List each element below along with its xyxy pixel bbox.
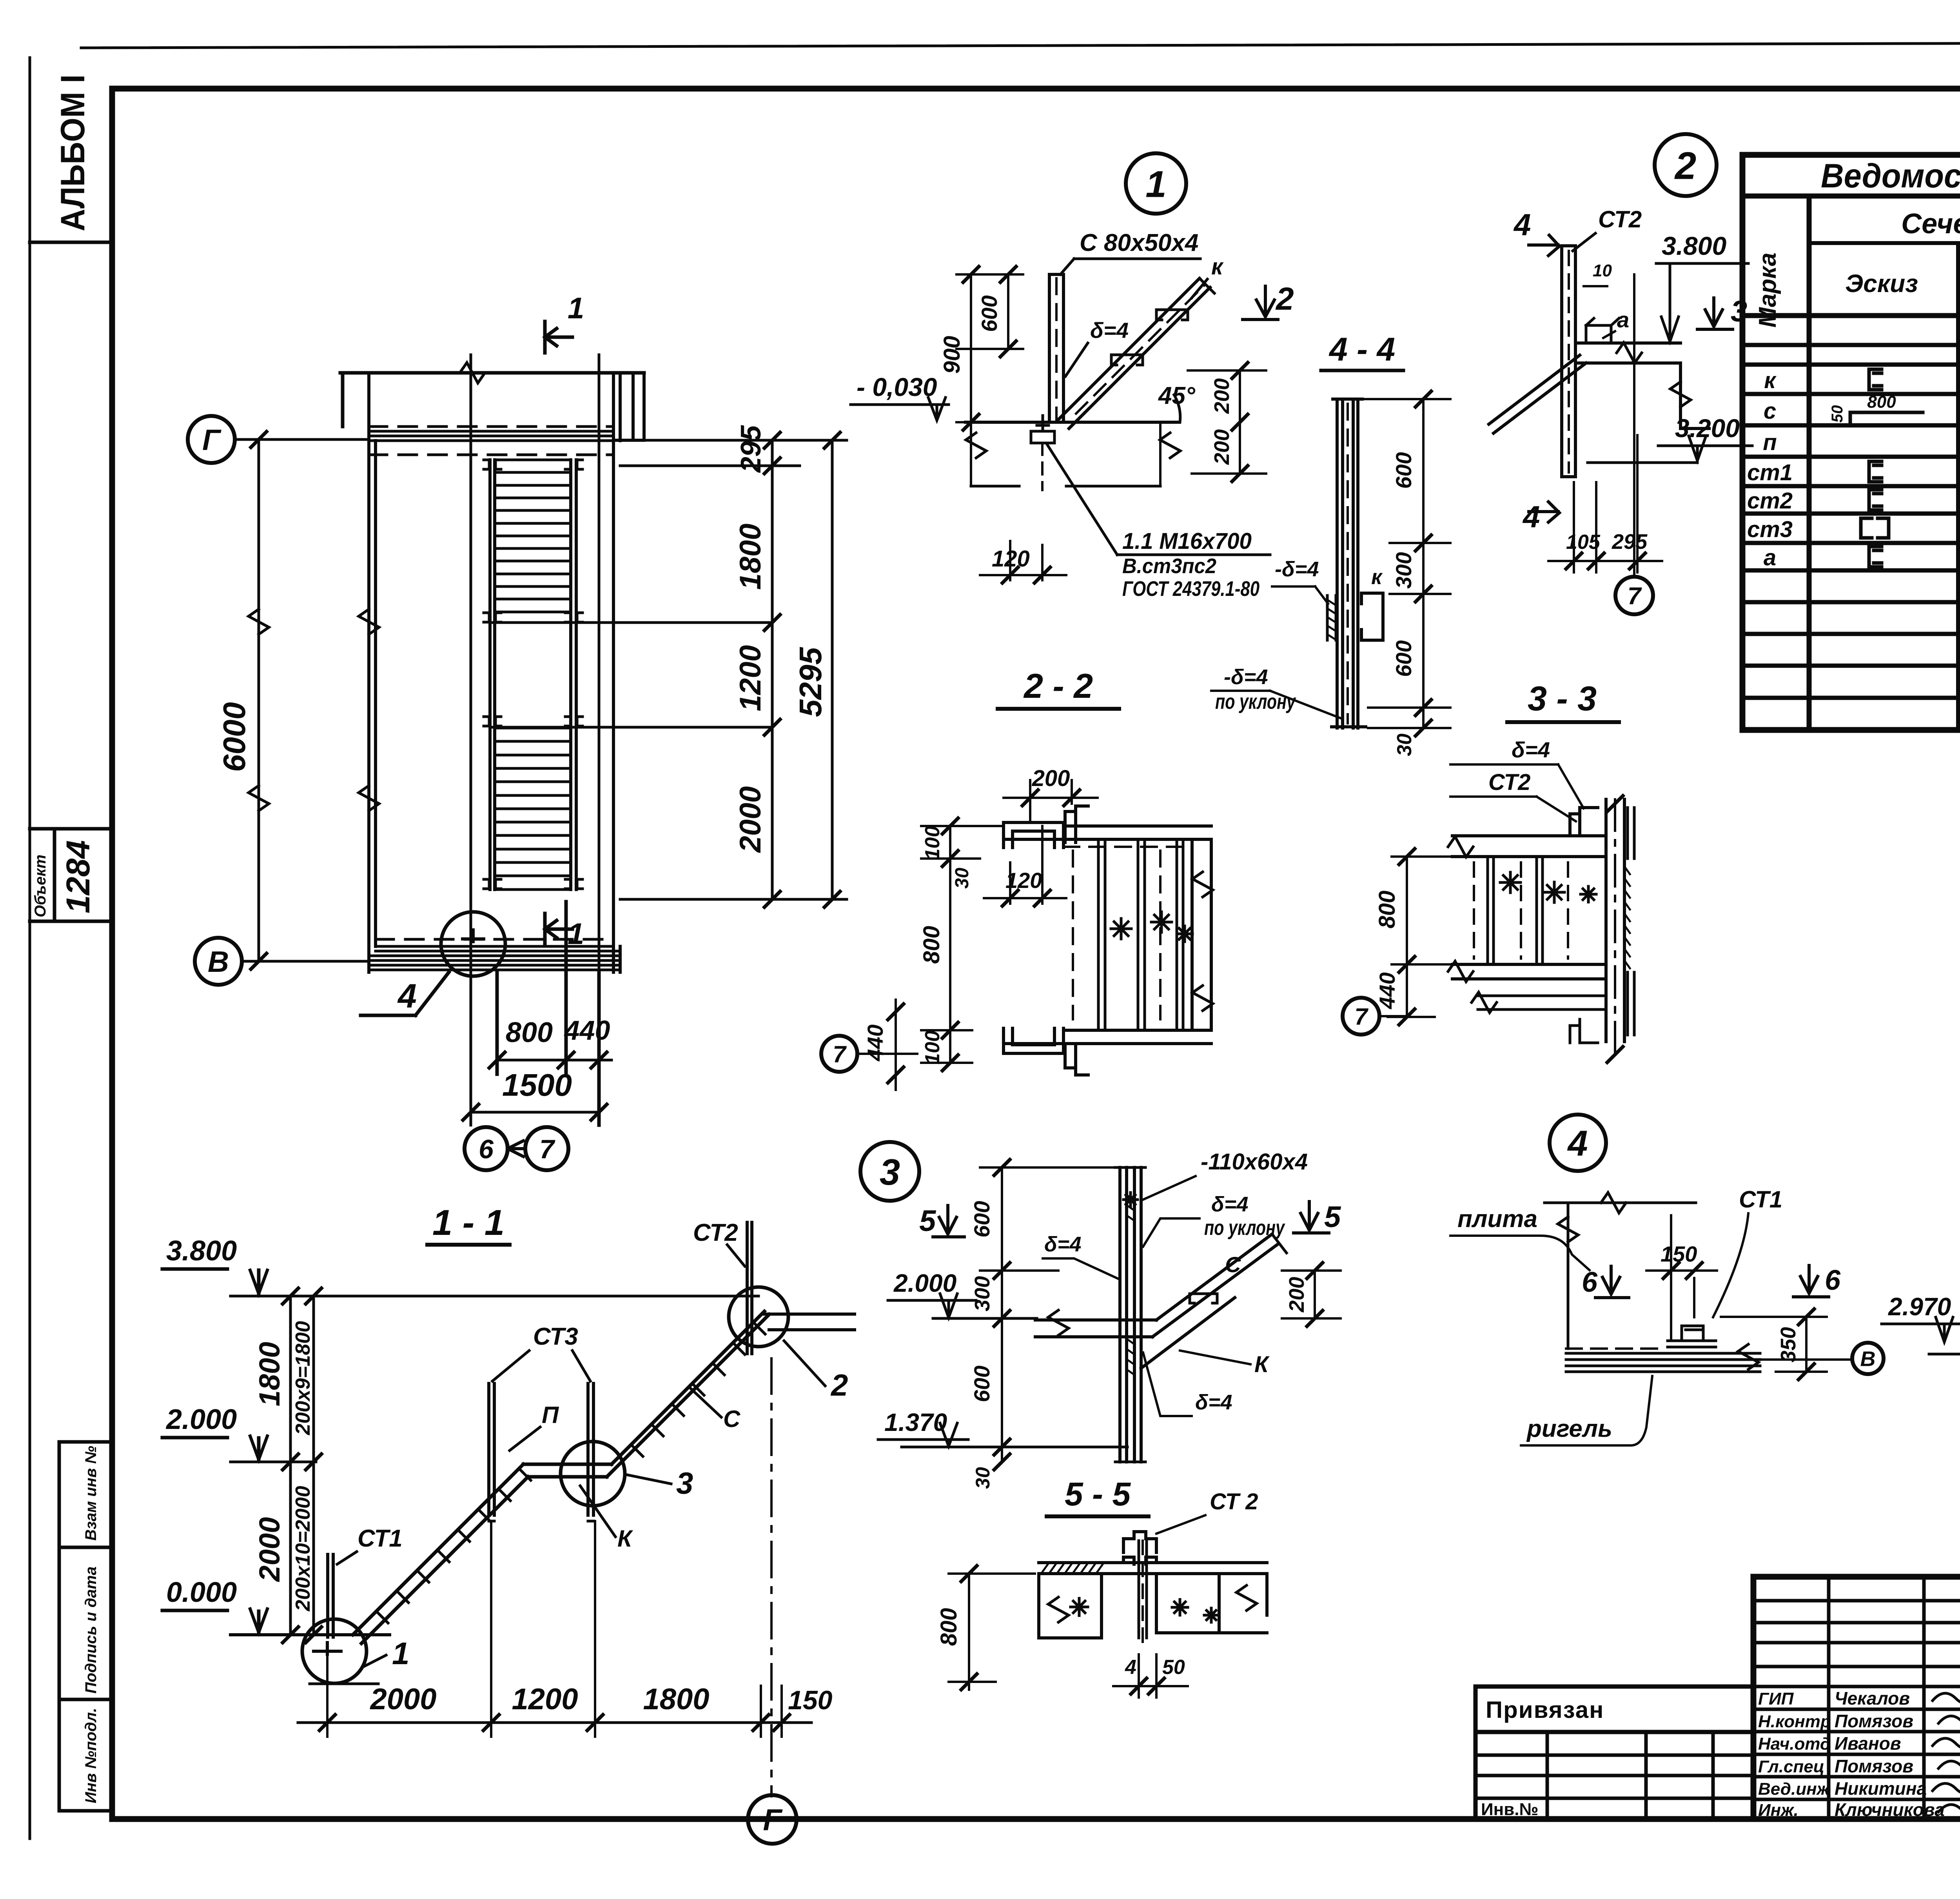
s1-1 detail circle 3 <box>561 1441 625 1506</box>
svg-text:Объект: Объект <box>32 855 49 917</box>
svg-text:1800: 1800 <box>253 1342 286 1407</box>
svg-text:Иванов: Иванов <box>1835 1733 1901 1754</box>
svg-text:7: 7 <box>1354 1004 1368 1030</box>
object stamp box <box>30 829 112 921</box>
svg-text:440: 440 <box>863 1024 887 1061</box>
svg-text:1: 1 <box>568 292 584 325</box>
table row lines <box>1742 345 1960 698</box>
svg-text:В: В <box>1860 1347 1876 1371</box>
svg-text:30: 30 <box>952 868 973 889</box>
svg-text:4: 4 <box>1125 1656 1136 1679</box>
svg-text:Гл.спец: Гл.спец <box>1758 1757 1824 1776</box>
node4 axis circle В <box>1852 1343 1884 1374</box>
svg-text:-110х60х4: -110х60х4 <box>1201 1149 1308 1175</box>
album label cell <box>30 241 112 244</box>
s33 right column pair <box>1606 799 1624 1042</box>
svg-text:с: с <box>1764 398 1776 424</box>
s1-1 storey dim line <box>290 1296 314 1635</box>
s1-1 landing posts CT3 <box>489 1383 593 1515</box>
s33 top plate <box>1452 836 1606 857</box>
plan: axis circles 6 and 7 <box>465 1127 508 1170</box>
svg-text:800: 800 <box>1867 392 1896 412</box>
svg-text:600: 600 <box>1391 452 1416 488</box>
svg-text:295: 295 <box>735 425 767 473</box>
plan: flight 2 treads <box>497 728 571 890</box>
svg-text:Инж.: Инж. <box>1758 1801 1798 1820</box>
svg-text:4: 4 <box>1513 207 1531 242</box>
node1 foundation lines <box>971 485 1160 488</box>
svg-text:СТ 2: СТ 2 <box>1210 1489 1258 1514</box>
s33 bottom clip <box>1570 1019 1598 1043</box>
node1 vertical channel CT1 <box>1049 274 1063 422</box>
svg-text:4: 4 <box>1522 499 1540 534</box>
s33 top Z clip <box>1570 808 1598 836</box>
svg-text:30: 30 <box>972 1467 994 1489</box>
node3 upper diagonal C <box>1152 1234 1279 1337</box>
svg-text:1.1 М16х700: 1.1 М16х700 <box>1122 528 1252 554</box>
plan: stringer left pair <box>490 460 495 890</box>
svg-text:δ=4: δ=4 <box>1211 1193 1249 1216</box>
node3 lower diagonal K <box>1141 1298 1235 1368</box>
titleblock signature rows <box>1753 1709 1960 1799</box>
svg-text:СТ3: СТ3 <box>533 1323 578 1350</box>
svg-text:200: 200 <box>1210 429 1234 465</box>
plan: mid landing extension lines <box>490 623 772 727</box>
table header grid <box>1742 196 1960 316</box>
svg-text:4: 4 <box>1567 1124 1588 1164</box>
svg-text:2: 2 <box>1674 144 1697 187</box>
svg-text:СТ1: СТ1 <box>1739 1186 1782 1213</box>
plan: right wall lines <box>613 373 620 972</box>
svg-text:1800: 1800 <box>643 1683 709 1716</box>
plan: dim 6000 vertical <box>258 439 260 961</box>
svg-text:150: 150 <box>1661 1242 1697 1266</box>
titleblock outer <box>1753 1577 1960 1819</box>
plan: bottom landing slab lines <box>369 946 620 970</box>
svg-text:600: 600 <box>969 1201 994 1237</box>
svg-text:5: 5 <box>1324 1200 1341 1234</box>
svg-text:3.200: 3.200 <box>1675 414 1740 443</box>
node4 dim 350 <box>1805 1317 1808 1372</box>
s1-1 post CT2 <box>747 1222 752 1354</box>
svg-text:-δ=4: -δ=4 <box>1224 665 1268 689</box>
svg-text:К: К <box>617 1525 633 1552</box>
node4 slab lines <box>1566 1353 1760 1372</box>
svg-text:к: к <box>1371 565 1383 589</box>
node3 dim chain 600/300/600/30 <box>1001 1167 1003 1462</box>
svg-text:Взам инв №: Взам инв № <box>82 1446 100 1541</box>
s1-1 top beam <box>764 1314 855 1330</box>
svg-text:Марка: Марка <box>1754 252 1781 327</box>
svg-text:В.ст3пс2: В.ст3пс2 <box>1122 554 1216 578</box>
node2 beam and landing edge <box>1575 343 1709 428</box>
s1-1 flight 1 stringer <box>353 1464 528 1643</box>
svg-text:δ=4: δ=4 <box>1044 1233 1082 1256</box>
node 3 circle marker <box>860 1142 919 1201</box>
svg-text:2000: 2000 <box>369 1683 436 1716</box>
s1-1 post CT1 <box>328 1554 333 1637</box>
svg-text:2000: 2000 <box>734 786 767 853</box>
s44 channel mark к <box>1361 593 1383 640</box>
svg-text:1 - 1: 1 - 1 <box>432 1203 505 1243</box>
plan: section mark 1 bottom <box>545 913 572 945</box>
node2 axis 7 line <box>1633 274 1635 577</box>
node1 dashed stringer inner <box>1076 284 1205 414</box>
svg-text:100: 100 <box>921 1031 944 1065</box>
svg-text:П: П <box>542 1402 559 1428</box>
sheet outer thin border top <box>81 42 1960 48</box>
node3 weld hatch on post <box>1127 1195 1134 1375</box>
plan: stringer end clips <box>484 460 501 469</box>
svg-text:3.800: 3.800 <box>1662 231 1726 260</box>
svg-text:440: 440 <box>1375 972 1399 1009</box>
svg-text:600: 600 <box>1391 640 1416 677</box>
plan: right wall jamb top <box>613 373 644 440</box>
node2 angle a <box>1586 318 1619 343</box>
node4 wall vertical <box>1567 1203 1570 1349</box>
table eskiz channel sketches <box>1869 369 1882 390</box>
svg-text:10: 10 <box>1593 261 1612 280</box>
node 1 circle marker <box>1126 153 1186 214</box>
plan: axis extension verticals <box>471 355 599 1112</box>
svg-text:120: 120 <box>992 546 1030 572</box>
node 2 circle marker <box>1655 134 1717 196</box>
svg-text:С 80х50х4: С 80х50х4 <box>1080 229 1198 256</box>
svg-text:1: 1 <box>392 1636 410 1671</box>
svg-text:800: 800 <box>506 1017 553 1048</box>
svg-text:Инв.№: Инв.№ <box>1481 1800 1539 1819</box>
svg-text:Нач.отд: Нач.отд <box>1758 1734 1831 1754</box>
svg-text:Никитина: Никитина <box>1835 1778 1927 1799</box>
plan: flight 1 treads <box>497 460 571 612</box>
svg-text:ст3: ст3 <box>1747 517 1793 542</box>
svg-text:30: 30 <box>1393 733 1416 756</box>
s33 weld hatch on column <box>1624 866 1630 968</box>
svg-text:ст2: ст2 <box>1747 488 1793 514</box>
svg-text:ригель: ригель <box>1526 1415 1612 1442</box>
svg-text:ГОСТ 24379.1-80: ГОСТ 24379.1-80 <box>1122 577 1259 601</box>
node4 top slab edge <box>1544 1202 1696 1204</box>
plan: detail circle 4 <box>441 912 505 976</box>
svg-text:200: 200 <box>1285 1277 1308 1313</box>
s1-1 flight 2 stringer <box>607 1311 769 1477</box>
s22 bottom plate <box>1004 1030 1211 1044</box>
svg-text:1.370: 1.370 <box>884 1408 947 1436</box>
svg-text:Подпись и дата: Подпись и дата <box>82 1567 100 1694</box>
svg-text:1200: 1200 <box>734 645 767 711</box>
svg-text:600: 600 <box>977 295 1002 332</box>
svg-text:50: 50 <box>1829 405 1846 423</box>
titleblock signatures squiggles <box>1933 1687 1960 1704</box>
sheet outer thin border left <box>29 58 31 1839</box>
s22 top left channel <box>1004 822 1063 848</box>
svg-text:Г: Г <box>202 423 221 456</box>
node3 central post <box>1120 1167 1141 1462</box>
svg-text:по уклону: по уклону <box>1215 690 1296 713</box>
level line 3.800 <box>230 1295 759 1298</box>
svg-text:ГИП: ГИП <box>1758 1689 1794 1708</box>
node3 landing beam <box>1035 1320 1156 1337</box>
svg-text:плита: плита <box>1457 1205 1537 1233</box>
s33 weld marks <box>1500 872 1521 893</box>
level line 2.000 <box>230 1461 316 1463</box>
svg-text:АЛЬБОМ I: АЛЬБОМ I <box>54 74 92 231</box>
svg-text:1: 1 <box>568 917 584 951</box>
svg-text:5295: 5295 <box>793 647 828 717</box>
s55 dims 4/50 <box>1139 1654 1156 1697</box>
s33 left dim chain 800/440 <box>1406 857 1408 1017</box>
privyazan box <box>1475 1687 1753 1819</box>
bottom-left stamp column <box>59 1442 112 1811</box>
svg-text:Помязов: Помязов <box>1835 1756 1913 1776</box>
table eskiz row c sketch <box>1850 412 1923 423</box>
s22 dim 200 top <box>1030 780 1072 821</box>
svg-text:п: п <box>1763 430 1777 455</box>
s44 vertical member <box>1337 399 1358 728</box>
node1 dim 900/600 <box>971 274 1008 422</box>
plan: top landing dashed edges <box>369 427 613 455</box>
svg-text:3 - 3: 3 - 3 <box>1528 679 1597 718</box>
svg-text:а: а <box>1617 307 1629 332</box>
titleblock left thin rows <box>1753 1601 1960 1687</box>
plan: top landing slab lines <box>369 431 613 441</box>
svg-text:300: 300 <box>971 1276 994 1311</box>
s44 dims right 600/300/600/30 <box>1422 399 1425 728</box>
svg-text:2.000: 2.000 <box>165 1404 237 1435</box>
svg-text:200: 200 <box>1210 378 1234 414</box>
table eskiz st3 double channel <box>1861 518 1889 538</box>
plan: left wall lines <box>369 373 376 972</box>
svg-text:В: В <box>208 945 229 978</box>
s55 left hatch strip <box>1041 1563 1104 1574</box>
table: Vedomost elementov outer box <box>1742 155 1960 730</box>
node1 dim 200/200 right <box>1239 370 1241 474</box>
svg-text:1200: 1200 <box>512 1683 578 1716</box>
svg-text:2: 2 <box>1275 281 1294 317</box>
svg-text:Эскиз: Эскиз <box>1845 269 1918 298</box>
plan: bottom dim 1500 <box>471 1074 599 1125</box>
s33 circle 7 <box>1343 998 1379 1035</box>
s1-1 landing beam <box>523 1464 612 1477</box>
svg-text:С: С <box>723 1406 741 1432</box>
svg-text:600: 600 <box>969 1365 994 1402</box>
svg-text:Сечение: Сечение <box>1901 208 1960 240</box>
plan: right dim chain 295/1800/1200/2000 <box>771 440 774 899</box>
node2 axis circle 7 <box>1615 577 1653 614</box>
s22 dim 120 <box>1010 826 1042 904</box>
s22 panel verticals <box>1098 839 1183 1030</box>
s22 dim 440 + circle 7 <box>895 1000 897 1090</box>
svg-text:а: а <box>1764 545 1776 570</box>
svg-text:1500: 1500 <box>502 1068 572 1102</box>
s44 weld plate left <box>1327 595 1336 640</box>
svg-text:350: 350 <box>1777 1327 1800 1362</box>
svg-text:3: 3 <box>880 1151 900 1193</box>
s1-1 foundation line under circle 1 <box>310 1683 378 1685</box>
svg-text:50: 50 <box>1162 1656 1185 1679</box>
s1-1 detail circle 1 <box>302 1619 367 1683</box>
s55 panels <box>1039 1574 1102 1638</box>
svg-text:5 - 5: 5 - 5 <box>1065 1476 1131 1512</box>
node4 dim 150 <box>1671 1215 1694 1341</box>
svg-text:Привязан: Привязан <box>1486 1697 1604 1723</box>
svg-text:δ=4: δ=4 <box>1195 1391 1232 1414</box>
titleblock left verticals <box>1829 1577 1960 1819</box>
s22 top Z clip <box>1065 806 1088 842</box>
plan: dim 5295 <box>831 440 834 899</box>
node1 tread clips on stringer <box>1111 355 1143 365</box>
node2 break marks on beam <box>1617 343 1642 363</box>
node3 dim 200 right <box>1314 1271 1316 1318</box>
plan: axis circle Г <box>188 416 235 463</box>
node3 tread clip on diagonal <box>1190 1294 1217 1303</box>
s55 top clip <box>1123 1532 1156 1564</box>
svg-text:2: 2 <box>830 1368 848 1402</box>
node2 bottom dims 105/295 <box>1574 435 1637 572</box>
node1 anchor bolt <box>1031 416 1054 443</box>
svg-text:1: 1 <box>1145 163 1166 205</box>
svg-text:295: 295 <box>1612 530 1648 554</box>
svg-text:900: 900 <box>939 336 965 374</box>
svg-text:105: 105 <box>1566 531 1601 554</box>
svg-text:100: 100 <box>921 826 944 860</box>
svg-text:Инв №подл.: Инв №подл. <box>82 1708 100 1803</box>
plan: bottom landing dashed edge <box>376 938 613 941</box>
svg-text:Ведомость элементов: Ведомость элементов <box>1821 157 1960 195</box>
svg-text:6000: 6000 <box>217 702 252 772</box>
plan: axis circle В <box>195 938 242 985</box>
svg-text:45°: 45° <box>1158 382 1196 409</box>
plan: section mark 1 top <box>545 321 572 353</box>
svg-text:Вед.инж: Вед.инж <box>1758 1779 1831 1799</box>
svg-text:440: 440 <box>564 1015 610 1046</box>
svg-text:300: 300 <box>1391 552 1416 588</box>
s1-1 detail circle 2 <box>729 1287 788 1347</box>
svg-text:200х10=2000: 200х10=2000 <box>292 1486 314 1612</box>
s22 bottom Z clip <box>1065 1044 1088 1075</box>
svg-text:7: 7 <box>539 1134 555 1164</box>
svg-text:800: 800 <box>919 926 944 964</box>
s22 left dim chain <box>949 826 951 1063</box>
svg-text:120: 120 <box>1005 868 1042 893</box>
svg-text:С: С <box>1225 1252 1241 1277</box>
svg-text:6: 6 <box>1582 1267 1598 1298</box>
svg-text:Н.контр: Н.контр <box>1758 1712 1831 1731</box>
svg-text:6: 6 <box>479 1134 494 1164</box>
svg-text:Г: Г <box>763 1803 783 1837</box>
svg-text:0.000: 0.000 <box>166 1577 237 1608</box>
svg-text:7: 7 <box>1628 583 1642 610</box>
s55 right panels <box>1156 1574 1267 1633</box>
svg-text:1800: 1800 <box>734 523 767 590</box>
node1 diagonal stringer <box>1058 278 1210 428</box>
svg-text:200: 200 <box>1032 766 1070 791</box>
svg-text:2000: 2000 <box>253 1517 286 1583</box>
svg-text:Чекалов: Чекалов <box>1835 1688 1910 1708</box>
svg-text:5: 5 <box>919 1204 936 1238</box>
s22 bottom left channel <box>1004 1028 1063 1053</box>
svg-text:К: К <box>1254 1352 1270 1377</box>
s55 dim 800 <box>968 1574 970 1690</box>
svg-text:6: 6 <box>1825 1265 1841 1296</box>
svg-text:3.800: 3.800 <box>166 1235 237 1267</box>
svg-text:Помязов: Помязов <box>1835 1711 1913 1731</box>
svg-text:Ключникова: Ключникова <box>1835 1799 1945 1820</box>
s22 weld marks <box>1111 919 1131 939</box>
svg-text:δ=4: δ=4 <box>1512 737 1550 762</box>
s33 panel verticals <box>1488 857 1543 964</box>
svg-text:800: 800 <box>1374 891 1400 929</box>
s55 slab top lines <box>1039 1563 1267 1574</box>
svg-text:к: к <box>1764 368 1777 393</box>
svg-text:2.000: 2.000 <box>893 1269 956 1297</box>
s1-1 bottom dims <box>327 1521 782 1737</box>
node 4 circle marker <box>1550 1115 1606 1171</box>
svg-text:СТ1: СТ1 <box>358 1525 403 1552</box>
s22 right wall <box>1192 839 1211 1030</box>
node4 CT1 clip on slab <box>1668 1326 1716 1347</box>
plan: bottom dim 800/440 <box>497 902 599 1125</box>
level line 0.000 <box>230 1633 390 1636</box>
node2 post CT2 <box>1562 246 1575 477</box>
svg-text:800: 800 <box>936 1608 962 1646</box>
svg-text:150: 150 <box>788 1685 833 1715</box>
svg-text:4 - 4: 4 - 4 <box>1328 331 1395 368</box>
s33 lower slab <box>1478 996 1606 1009</box>
svg-text:ст1: ст1 <box>1747 460 1793 485</box>
svg-text:СТ2: СТ2 <box>693 1219 738 1246</box>
svg-text:2.970: 2.970 <box>1888 1293 1951 1321</box>
node1 base line <box>965 421 1179 424</box>
svg-text:7: 7 <box>833 1041 847 1068</box>
svg-text:3: 3 <box>676 1466 693 1500</box>
s33 bottom plate <box>1452 964 1606 979</box>
plan: stringer right pair <box>571 460 576 890</box>
s1-1 axis circle Г <box>748 1795 797 1844</box>
svg-text:-δ=4: -δ=4 <box>1275 557 1319 581</box>
svg-text:СТ2: СТ2 <box>1488 770 1530 795</box>
node1 dim 120 <box>1010 541 1042 580</box>
svg-text:4: 4 <box>397 977 417 1015</box>
s1-1 axis Г line <box>770 1358 773 1796</box>
svg-text:1284: 1284 <box>60 840 96 913</box>
svg-text:δ=4: δ=4 <box>1090 318 1129 343</box>
svg-text:- 0,030: - 0,030 <box>857 372 937 401</box>
svg-text:к: к <box>1211 254 1224 280</box>
s22 top plate <box>1004 826 1211 839</box>
plan: top wall edge <box>340 373 644 427</box>
svg-text:2 - 2: 2 - 2 <box>1023 666 1093 705</box>
node2 stringer arriving <box>1489 355 1586 433</box>
svg-text:200х9=1800: 200х9=1800 <box>292 1321 314 1436</box>
svg-text:СТ2: СТ2 <box>1598 206 1642 232</box>
